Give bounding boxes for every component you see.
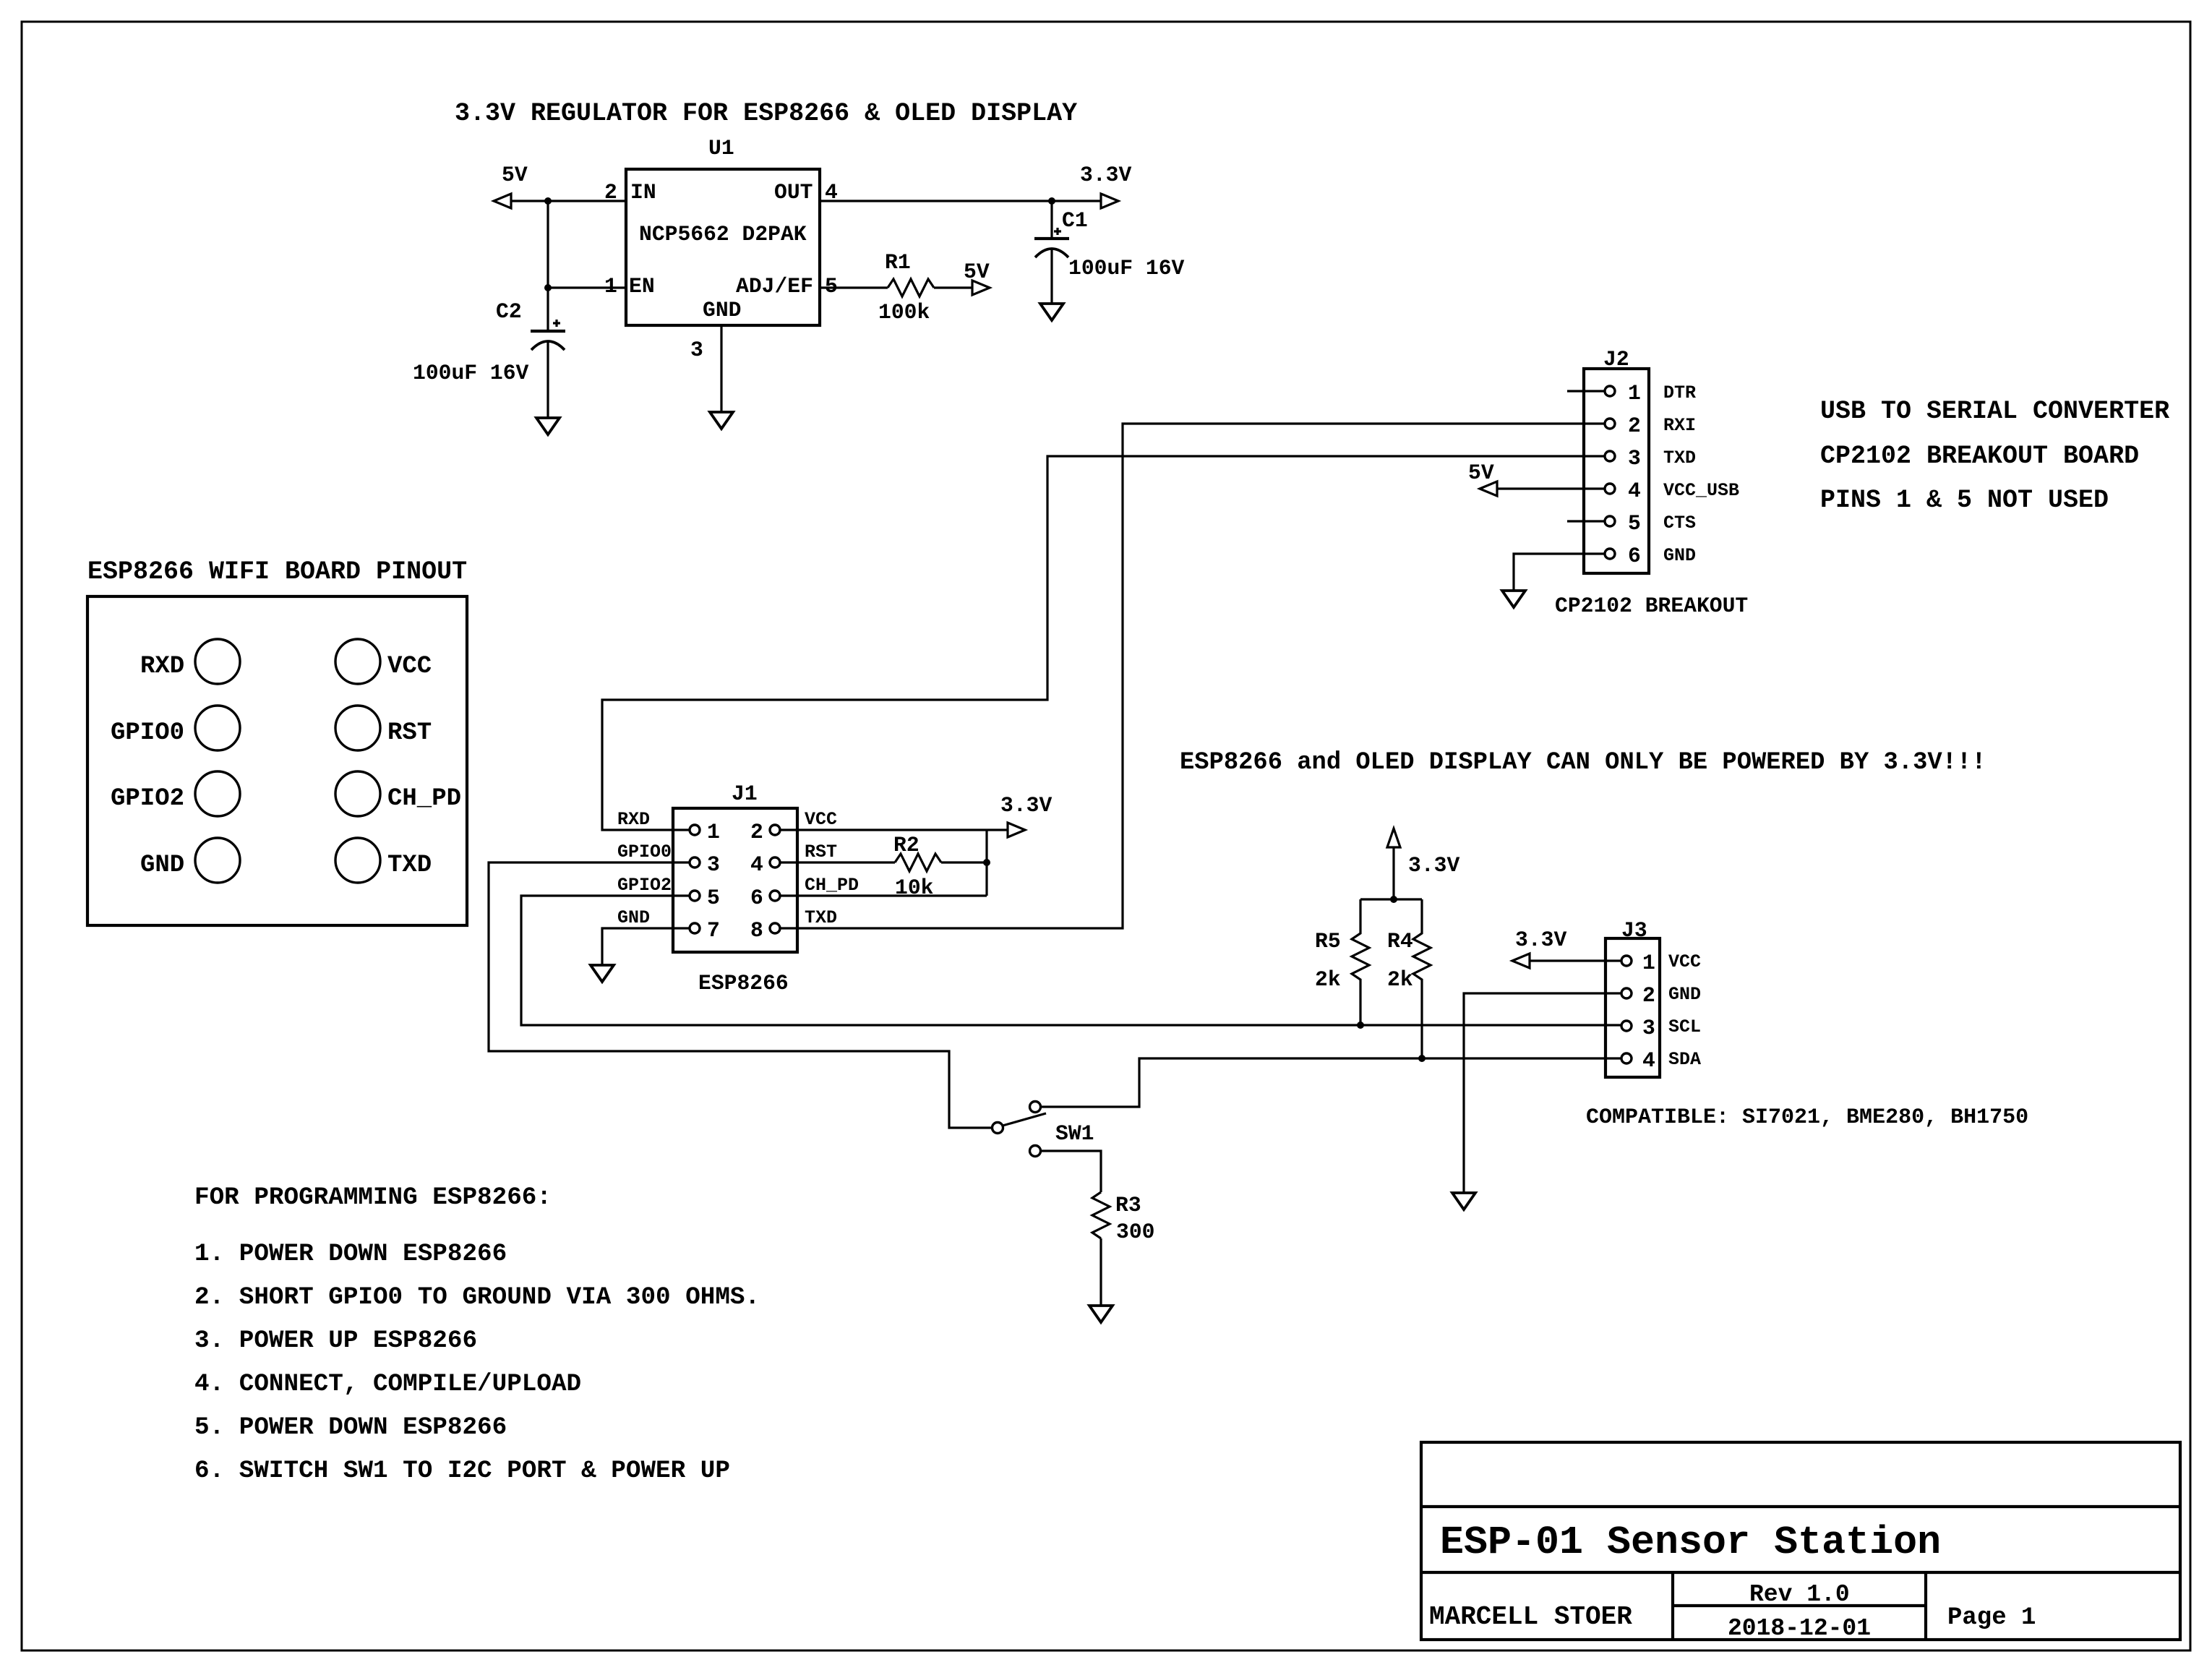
svg-text:GPIO0: GPIO0 (111, 719, 184, 747)
R2 value label (895, 875, 933, 900)
wire J1 RST pin 4 to R2 (780, 861, 895, 863)
svg-text:R4: R4 (1387, 929, 1413, 954)
svg-text:TXD: TXD (387, 852, 432, 879)
svg-text:J1: J1 (732, 782, 758, 806)
wire J3 pin 2 to ground (1464, 993, 1621, 1193)
svg-text:ESP8266: ESP8266 (698, 971, 789, 995)
svg-text:GPIO2: GPIO2 (111, 785, 184, 813)
C1 value label (1068, 256, 1185, 281)
net GPIO0: J1 pin 3 to SW1 pole (489, 862, 992, 1128)
wire OUT down to C1 (1050, 201, 1053, 239)
svg-text:3.3V REGULATOR FOR ESP8266 & O: 3.3V REGULATOR FOR ESP8266 & OLED DISPLA… (455, 99, 1077, 128)
svg-text:EN: EN (629, 274, 655, 299)
wire R1 to 5V arrow (934, 286, 972, 288)
svg-text:6: 6 (1628, 544, 1641, 568)
C2 value label (413, 361, 529, 385)
svg-text:2k: 2k (1315, 967, 1341, 992)
pinout pad TXD (335, 838, 432, 883)
svg-text:J3: J3 (1621, 918, 1647, 943)
svg-text:4: 4 (750, 852, 763, 877)
J3 pin 1 (1621, 951, 1701, 975)
capacitor C1 (1034, 208, 1088, 257)
note step 6 (194, 1457, 730, 1485)
junction dot RST riser (983, 859, 990, 866)
svg-text:5: 5 (1628, 511, 1641, 536)
J2 label CP2102 BREAKOUT (1555, 594, 1748, 618)
R4 value label (1387, 967, 1413, 992)
revision Rev 1.0 (1749, 1581, 1850, 1608)
net GPIO2/SCL: J1 pin 5 to J3 pin 3 (521, 896, 1621, 1025)
svg-text:5V: 5V (502, 163, 528, 187)
svg-text:100uF 16V: 100uF 16V (413, 361, 529, 385)
J1 label ESP8266 (698, 971, 789, 995)
svg-text:VCC: VCC (1668, 951, 1701, 972)
regulator U1 (626, 136, 820, 325)
svg-text:C2: C2 (496, 299, 522, 324)
svg-text:1: 1 (1628, 381, 1641, 406)
svg-text:2018-12-01: 2018-12-01 (1728, 1615, 1871, 1642)
pinout pad RXD (140, 639, 240, 684)
power arrow 3.3V at J1 VCC (1000, 793, 1052, 837)
U1 pin 2 IN label (604, 180, 656, 205)
resistor R5 (1315, 899, 1369, 1025)
J1 pin 3 (617, 842, 720, 877)
pinout pad VCC (335, 639, 432, 684)
svg-text:CH_PD: CH_PD (805, 875, 859, 896)
J1 pin 6 (750, 875, 859, 910)
note step 3 (194, 1327, 477, 1355)
pinout pad RST (335, 706, 432, 750)
junction dot 5V/C2 (544, 197, 552, 205)
wire top bar R5 to R4 (1360, 898, 1422, 900)
J2 pin 2 (1605, 414, 1696, 438)
wire 3.3V arrow to J3 pin 1 (1530, 959, 1621, 962)
svg-text:VCC: VCC (387, 653, 432, 680)
wire 3.3V arrow to R5 R4 top bar (1392, 847, 1394, 899)
svg-text:4: 4 (1628, 479, 1641, 503)
J2 pin 6 (1605, 544, 1696, 568)
wire U1 ADJ/EF to R1 (820, 286, 888, 288)
title text ESP-01 Sensor Station (1440, 1520, 1941, 1565)
ground below U1 (710, 412, 733, 429)
wire J1 VCC pin 2 to 3.3V (780, 828, 1008, 831)
section title: ESP8266 WIFI BOARD PINOUT (87, 557, 467, 586)
svg-text:SDA: SDA (1668, 1049, 1701, 1070)
date 2018-12-01 (1728, 1615, 1871, 1642)
svg-text:VCC: VCC (805, 809, 837, 830)
svg-text:GND: GND (1663, 545, 1696, 566)
svg-text:1: 1 (604, 274, 617, 299)
svg-text:5V: 5V (964, 260, 990, 284)
svg-text:3: 3 (707, 852, 720, 877)
wire EN to U1 (548, 286, 626, 288)
junction dot OUT/C1 (1048, 197, 1055, 205)
svg-text:6. SWITCH SW1 TO I2C PORT & PO: 6. SWITCH SW1 TO I2C PORT & POWER UP (194, 1457, 730, 1485)
J2 pin 5 (1605, 511, 1696, 536)
power arrow 3.3V right of U1 (1080, 163, 1131, 208)
svg-text:ESP-01 Sensor Station: ESP-01 Sensor Station (1440, 1520, 1941, 1565)
ground below J2 (1502, 591, 1525, 607)
wire R3 to ground (1099, 1238, 1102, 1306)
R3 value label (1116, 1220, 1154, 1244)
svg-text:DTR: DTR (1663, 382, 1696, 403)
pinout pad GPIO2 (111, 771, 240, 816)
svg-text:C1: C1 (1062, 208, 1088, 233)
svg-text:3: 3 (690, 338, 703, 362)
J2 pin 5 stub wire (1567, 520, 1605, 522)
resistor R2 (893, 833, 941, 871)
svg-text:5: 5 (825, 274, 838, 299)
junction dot EN (544, 284, 552, 291)
svg-text:CP2102 BREAKOUT: CP2102 BREAKOUT (1555, 594, 1748, 618)
svg-text:4: 4 (1642, 1048, 1655, 1073)
power arrow 5V at VCC_USB (1468, 461, 1497, 496)
pinout pad GND (140, 838, 240, 883)
wire J1 CH_PD pin 6 to riser (780, 894, 987, 896)
resistor R3 (1092, 1192, 1141, 1238)
svg-text:CH_PD: CH_PD (387, 785, 461, 813)
svg-text:CP2102 BREAKOUT BOARD: CP2102 BREAKOUT BOARD (1820, 442, 2139, 471)
J1 pin 8 (750, 907, 837, 943)
pinout pad CH_PD (335, 771, 461, 816)
U1 pin 1 EN label (604, 274, 655, 299)
pinout pad GPIO0 (111, 706, 240, 750)
wire C1 to ground (1050, 249, 1053, 304)
svg-text:GPIO2: GPIO2 (617, 875, 672, 896)
svg-text:6: 6 (750, 886, 763, 910)
svg-text:RXD: RXD (140, 653, 184, 680)
svg-text:1: 1 (707, 820, 720, 844)
note PINS 1 and 5 NOT USED (1820, 486, 2109, 515)
note step 5 (194, 1413, 507, 1442)
svg-text:2: 2 (1642, 983, 1655, 1008)
capacitor C2 (496, 299, 565, 350)
junction dot SDA at R4 (1418, 1055, 1426, 1062)
power arrow 5V left of U1 (494, 163, 528, 208)
svg-text:8: 8 (750, 918, 763, 943)
svg-text:RXI: RXI (1663, 415, 1696, 436)
note USB TO SERIAL CONVERTER (1820, 397, 2169, 426)
svg-text:5. POWER DOWN ESP8266: 5. POWER DOWN ESP8266 (194, 1413, 507, 1442)
svg-text:R1: R1 (885, 250, 911, 275)
svg-text:3.3V: 3.3V (1080, 163, 1131, 187)
note FOR PROGRAMMING ESP8266 (194, 1183, 552, 1212)
note ESP8266 and OLED power warning (1180, 749, 1986, 776)
net SDA: J3 pin 4 to SW1 throw (1041, 1058, 1621, 1107)
svg-text:3.3V: 3.3V (1408, 853, 1459, 878)
svg-text:1. POWER DOWN ESP8266: 1. POWER DOWN ESP8266 (194, 1240, 507, 1268)
svg-text:SCL: SCL (1668, 1016, 1701, 1037)
title block (1421, 1442, 2180, 1640)
svg-text:300: 300 (1116, 1220, 1154, 1244)
connector J3 (1606, 918, 1660, 1077)
ground below C2 (536, 418, 560, 434)
ground below J1 (591, 965, 614, 982)
svg-text:5V: 5V (1468, 461, 1494, 485)
wire riser VCC to CH_PD (985, 830, 987, 896)
J1 pin 2 (750, 809, 837, 844)
svg-text:RST: RST (387, 719, 432, 747)
net RXD: J1 pin 1 to J2 pin 3 (602, 456, 1605, 830)
J2 pin 1 (1605, 381, 1696, 406)
wire SW1 throw 2 to R3 (1041, 1151, 1101, 1192)
wire R2 to 3.3V riser (941, 861, 987, 863)
svg-text:RXD: RXD (617, 809, 650, 830)
page number Page 1 (1947, 1604, 2036, 1632)
junction dot SCL at R5 (1357, 1022, 1364, 1029)
ground below R3 (1089, 1306, 1113, 1322)
svg-text:GND: GND (703, 298, 741, 322)
J2 pin 4 (1605, 479, 1739, 503)
J1 pin 4 (750, 842, 837, 877)
J3 pin 3 (1621, 1016, 1701, 1040)
svg-text:TXD: TXD (1663, 448, 1696, 468)
svg-text:COMPATIBLE: SI7021, BME280, BH: COMPATIBLE: SI7021, BME280, BH1750 (1586, 1105, 2028, 1130)
wire 5V down to C2 and EN (546, 201, 549, 331)
svg-text:ESP8266 WIFI BOARD PINOUT: ESP8266 WIFI BOARD PINOUT (87, 557, 467, 586)
svg-text:SW1: SW1 (1055, 1121, 1094, 1146)
svg-text:IN: IN (630, 180, 656, 205)
note step 4 (194, 1370, 581, 1398)
power arrow 3.3V at J3 VCC (1512, 928, 1566, 968)
svg-text:NCP5662 D2PAK: NCP5662 D2PAK (639, 222, 807, 247)
svg-text:VCC_USB: VCC_USB (1663, 480, 1739, 501)
power arrow 3.3V above R5 R4 (1387, 828, 1459, 878)
svg-text:ESP8266 and OLED DISPLAY CAN O: ESP8266 and OLED DISPLAY CAN ONLY BE POW… (1180, 749, 1986, 776)
svg-text:2: 2 (750, 820, 763, 844)
svg-text:R2: R2 (893, 833, 919, 857)
svg-text:2. SHORT GPIO0 TO GROUND VIA 3: 2. SHORT GPIO0 TO GROUND VIA 300 OHMS. (194, 1283, 760, 1311)
U1 pin 4 OUT label (774, 180, 838, 205)
R1 value label (878, 300, 930, 325)
svg-text:OUT: OUT (774, 180, 813, 205)
ground below C1 (1040, 304, 1063, 320)
U1 pin 5 ADJ/EF label (736, 274, 838, 299)
svg-text:2: 2 (1628, 414, 1641, 438)
svg-text:ADJ/EF: ADJ/EF (736, 274, 813, 299)
svg-text:GPIO0: GPIO0 (617, 842, 672, 862)
net TXD: J1 pin 8 to J2 pin 2 (780, 424, 1605, 928)
svg-text:RST: RST (805, 842, 837, 862)
svg-text:2k: 2k (1387, 967, 1413, 992)
junction dot R5 R4 top (1390, 896, 1397, 903)
svg-text:Page 1: Page 1 (1947, 1604, 2036, 1632)
note step 2 (194, 1283, 760, 1311)
resistor R4 (1387, 899, 1431, 1058)
wire J2 pin 6 to ground (1514, 554, 1605, 591)
U1 pin 3 GND label (690, 298, 741, 362)
svg-text:3.3V: 3.3V (1000, 793, 1052, 818)
pinout board box (87, 596, 467, 925)
svg-text:100uF 16V: 100uF 16V (1068, 256, 1185, 281)
svg-text:TXD: TXD (805, 907, 837, 928)
connector J1 (673, 782, 797, 952)
wire U1 GND to ground (720, 325, 722, 412)
svg-text:1: 1 (1642, 951, 1655, 975)
ground below J3 (1452, 1193, 1475, 1209)
power arrow 5V right of R1 (964, 260, 990, 295)
svg-text:PINS 1 & 5 NOT USED: PINS 1 & 5 NOT USED (1820, 486, 2109, 515)
J1 pin 7 (617, 907, 720, 943)
resistor R1 (885, 250, 934, 296)
J2 pin 1 stub wire (1567, 390, 1605, 392)
switch SW1 (993, 1102, 1094, 1157)
svg-text:R5: R5 (1315, 929, 1341, 954)
svg-text:USB TO SERIAL CONVERTER: USB TO SERIAL CONVERTER (1820, 397, 2169, 426)
svg-text:5: 5 (707, 886, 720, 910)
svg-text:GND: GND (140, 852, 184, 879)
J3 pin 2 (1621, 983, 1701, 1008)
note CP2102 BREAKOUT BOARD (1820, 442, 2139, 471)
svg-text:U1: U1 (708, 136, 734, 160)
svg-text:4. CONNECT, COMPILE/UPLOAD: 4. CONNECT, COMPILE/UPLOAD (194, 1370, 581, 1398)
note step 1 (194, 1240, 507, 1268)
svg-text:Rev 1.0: Rev 1.0 (1749, 1581, 1850, 1608)
wire 5V arrow to J2 pin 4 (1497, 487, 1605, 489)
J1 pin 5 (617, 875, 720, 910)
note COMPATIBLE sensors (1586, 1105, 2028, 1130)
svg-text:7: 7 (707, 918, 720, 943)
wire C2 to ground (546, 341, 549, 418)
svg-text:3: 3 (1628, 446, 1641, 471)
wire U1 OUT to 3.3V (820, 200, 1101, 202)
J1 pin 1 (617, 809, 720, 844)
svg-text:CTS: CTS (1663, 513, 1696, 534)
J2 pin 3 (1605, 446, 1696, 471)
svg-text:3. POWER UP ESP8266: 3. POWER UP ESP8266 (194, 1327, 477, 1355)
connector J2 (1584, 347, 1649, 573)
svg-text:100k: 100k (878, 300, 930, 325)
svg-text:GND: GND (1668, 984, 1701, 1005)
svg-text:FOR PROGRAMMING ESP8266:: FOR PROGRAMMING ESP8266: (194, 1183, 552, 1212)
svg-text:R3: R3 (1115, 1193, 1141, 1217)
section title: 3.3V regulator (455, 99, 1077, 128)
J3 pin 4 (1621, 1048, 1701, 1073)
svg-text:J2: J2 (1603, 347, 1629, 372)
wire 5V to U1 IN (511, 200, 626, 202)
svg-text:3: 3 (1642, 1016, 1655, 1040)
wire J1 GND pin 7 to ground (602, 928, 689, 965)
svg-text:MARCELL STOER: MARCELL STOER (1429, 1602, 1632, 1632)
R5 value label (1315, 967, 1341, 992)
author MARCELL STOER (1429, 1602, 1632, 1632)
svg-text:3.3V: 3.3V (1515, 928, 1566, 952)
svg-text:GND: GND (617, 907, 650, 928)
